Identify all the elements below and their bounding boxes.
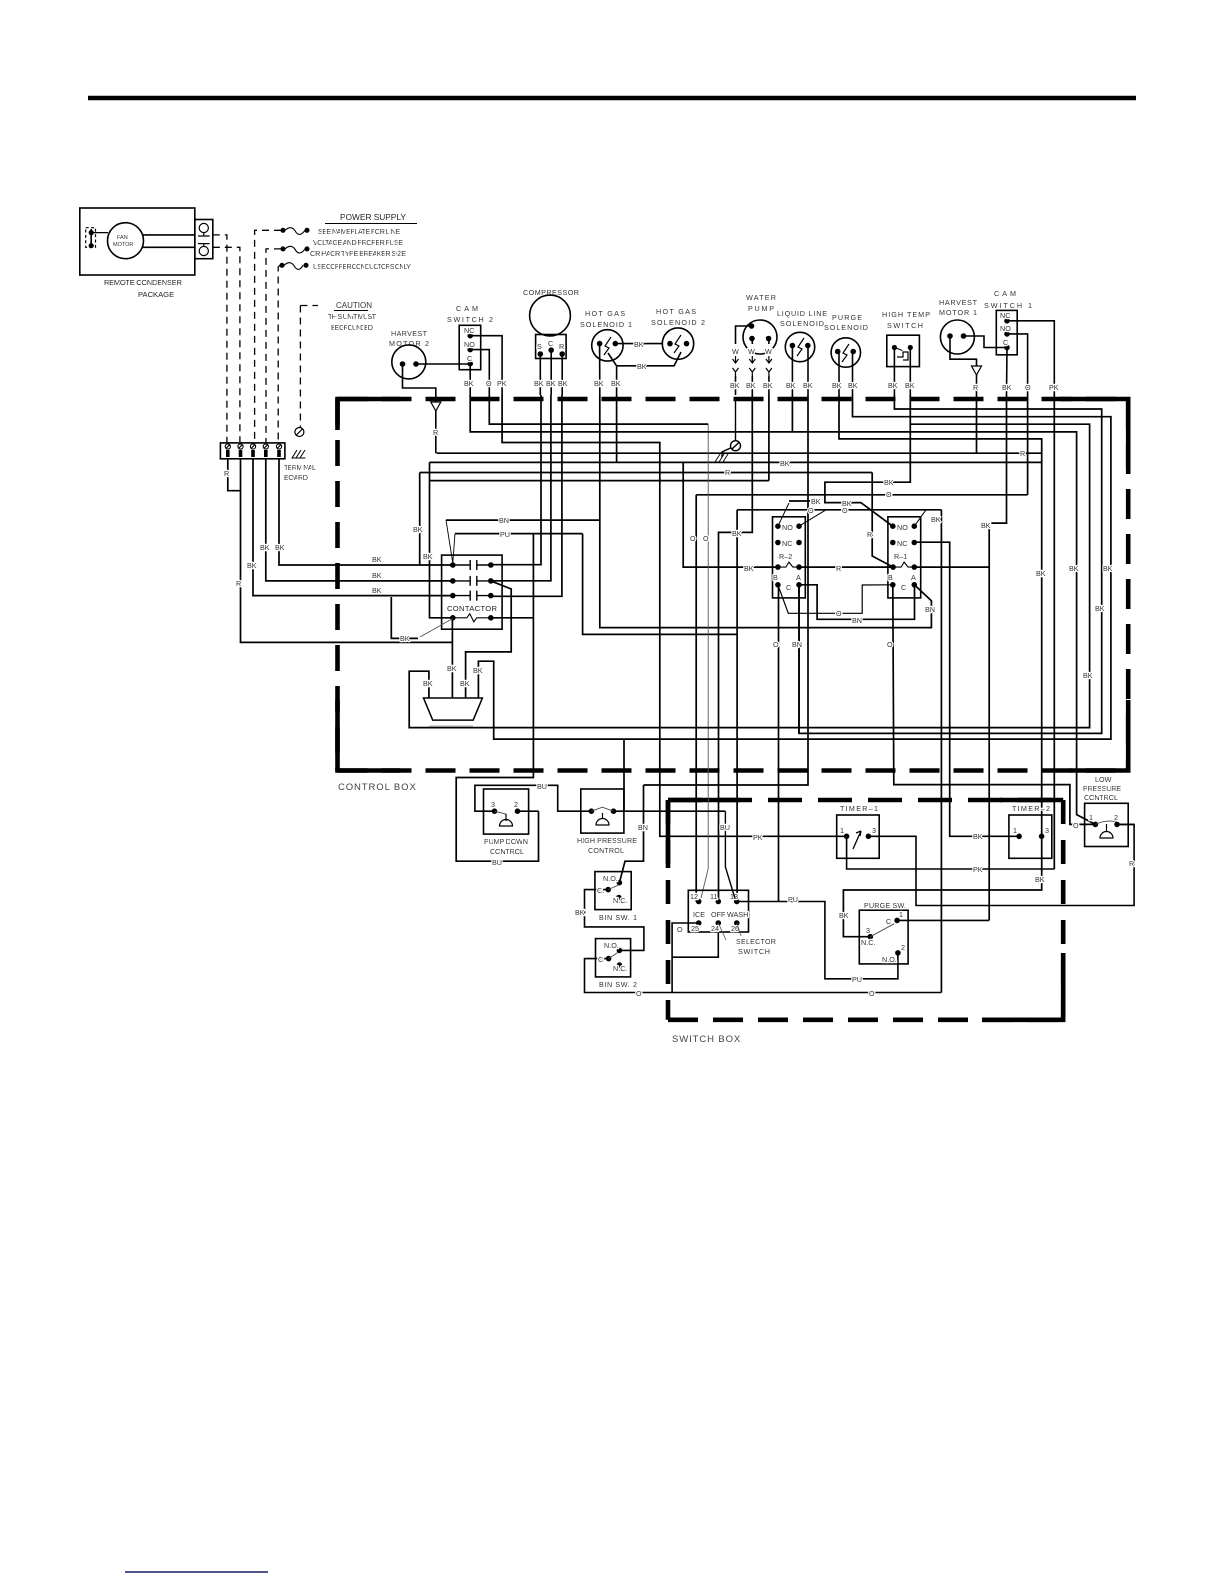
junction dot bbox=[685, 342, 689, 346]
svg-text:LOW: LOW bbox=[1095, 775, 1112, 784]
svg-text:BN: BN bbox=[852, 616, 862, 625]
wire BK terminal 5 to contactor L1 bbox=[279, 459, 453, 565]
svg-text:BK: BK bbox=[884, 478, 894, 487]
junction dot bbox=[735, 900, 739, 904]
dashed caution pointer bbox=[300, 305, 318, 307]
wire fan motor to overload block (top) bbox=[143, 234, 195, 236]
svg-text:N.O.: N.O. bbox=[604, 941, 619, 950]
group bbox=[392, 345, 470, 453]
svg-text:OFF: OFF bbox=[711, 910, 726, 919]
terminal 4 bbox=[263, 444, 268, 449]
transformer T1 bbox=[424, 698, 483, 720]
wire bbox=[733, 368, 739, 376]
wire R coil link bbox=[799, 566, 893, 568]
svg-text:BK: BK bbox=[1036, 569, 1046, 578]
switch box border corner top-right bbox=[1000, 798, 1063, 803]
chevron connector R bbox=[431, 402, 441, 411]
wire BN drop to bin switch 1 bbox=[619, 785, 643, 883]
svg-text:BK: BK bbox=[372, 586, 382, 595]
svg-text:BK: BK bbox=[413, 525, 423, 534]
W arrows then chevrons bbox=[733, 356, 772, 376]
svg-text:BK: BK bbox=[460, 679, 470, 688]
wire R harvest motor 2 down bbox=[403, 364, 436, 402]
wire bbox=[292, 457, 306, 459]
junction dot bbox=[560, 352, 564, 356]
svg-text:CAM: CAM bbox=[994, 289, 1016, 298]
wire BK high temp switch right bbox=[909, 349, 911, 395]
svg-text:NO: NO bbox=[1000, 324, 1011, 333]
junction dot bbox=[776, 541, 780, 545]
svg-text:BK: BK bbox=[1035, 875, 1045, 884]
harvest motor 1 bbox=[940, 320, 974, 354]
pointer to R2 NO left bbox=[778, 503, 789, 526]
high pressure dome bbox=[596, 813, 609, 825]
svg-text:BK: BK bbox=[546, 379, 556, 388]
junction dot bbox=[613, 342, 617, 346]
wire bbox=[778, 562, 799, 567]
junction dot bbox=[909, 346, 913, 350]
wire O horizontal run 510 bbox=[737, 509, 941, 511]
svg-text:R: R bbox=[559, 342, 564, 351]
junction dot bbox=[1005, 346, 1009, 350]
wire bbox=[264, 450, 268, 457]
svg-text:PURGE SW.: PURGE SW. bbox=[864, 901, 906, 910]
junction dot bbox=[790, 344, 794, 348]
wire BK terminal 4 to contactor L2 bbox=[266, 459, 453, 581]
junction dot bbox=[750, 337, 754, 341]
junction dot bbox=[516, 809, 520, 813]
junction dot bbox=[617, 881, 621, 885]
wire BU drop to selector 13 bbox=[725, 811, 735, 898]
control box border bottom bbox=[338, 768, 1129, 773]
contactor coil bbox=[453, 614, 491, 622]
purge solenoid bbox=[831, 338, 860, 367]
wire BK contactor jog bbox=[391, 597, 418, 638]
wire PU selector 13 to purge switch NO bbox=[737, 902, 898, 979]
group bbox=[459, 325, 502, 395]
pump down pressure dome bbox=[500, 814, 513, 826]
svg-text:MOTOR 2: MOTOR 2 bbox=[389, 339, 429, 348]
junction dot bbox=[948, 334, 952, 338]
wire bbox=[198, 244, 210, 247]
junction dot bbox=[451, 594, 455, 598]
svg-text:TIMER–1: TIMER–1 bbox=[840, 804, 878, 813]
wire O bin switch 2 C run bbox=[585, 959, 942, 993]
dashed feeders from condenser to terminal board bbox=[213, 230, 318, 442]
dashed supply wire 4 bbox=[266, 249, 281, 442]
wire BK cam switch 2 C bbox=[469, 364, 471, 395]
pointer PU to contactor bbox=[453, 534, 455, 563]
svg-text:BK: BK bbox=[981, 521, 991, 530]
junction dot bbox=[549, 348, 553, 352]
svg-text:N.C.: N.C. bbox=[613, 964, 627, 973]
wire BK horizontal run 481 bbox=[430, 480, 769, 482]
wire BK to relay R2 coil bbox=[683, 462, 778, 567]
svg-text:MOTOR: MOTOR bbox=[113, 242, 133, 248]
svg-text:BK: BK bbox=[558, 379, 568, 388]
remote condenser package box bbox=[80, 208, 195, 275]
wire PU horizontal run 534 bbox=[455, 533, 583, 535]
svg-text:O: O bbox=[703, 534, 709, 543]
junction dot bbox=[891, 541, 895, 545]
wire BN hot gas 1 to relay R1 A bbox=[600, 395, 932, 628]
wire BK liquid line right to BN drop bbox=[644, 395, 809, 785]
svg-text:LIQUID LINE: LIQUID LINE bbox=[777, 309, 827, 318]
svg-text:PU: PU bbox=[788, 895, 798, 904]
junction dot bbox=[89, 244, 93, 248]
overload symbol bottom bbox=[199, 246, 208, 255]
svg-text:ICE: ICE bbox=[693, 910, 705, 919]
svg-text:WATER: WATER bbox=[746, 293, 776, 302]
svg-text:NO: NO bbox=[897, 523, 908, 532]
svg-text:PU: PU bbox=[852, 975, 862, 984]
svg-text:BK: BK bbox=[832, 381, 842, 390]
wire relay R1 coil right bbox=[914, 566, 989, 568]
svg-text:BK: BK bbox=[423, 679, 433, 688]
svg-text:BK: BK bbox=[1069, 564, 1079, 573]
junction dot bbox=[697, 900, 701, 904]
svg-text:BOARD: BOARD bbox=[284, 473, 308, 482]
compressor bbox=[530, 295, 571, 336]
svg-text:BK: BK bbox=[400, 634, 410, 643]
wire PU drop to selector 13 feeder bbox=[583, 534, 738, 635]
svg-text:SEE NAMEPLATE FOR LINE: SEE NAMEPLATE FOR LINE bbox=[318, 227, 400, 236]
control box bbox=[338, 399, 1129, 771]
low pressure switch blade bbox=[1095, 821, 1117, 824]
wire BK cam switch 1 C to purge switch C bbox=[989, 395, 1006, 920]
svg-text:PK: PK bbox=[497, 379, 507, 388]
wire R main horizontal run bbox=[437, 452, 1042, 454]
junction dot bbox=[735, 921, 739, 925]
junction dot bbox=[1115, 822, 1119, 826]
svg-text:N.C.: N.C. bbox=[861, 938, 875, 947]
svg-text:R: R bbox=[1129, 859, 1134, 868]
svg-text:CONTROL: CONTROL bbox=[1084, 793, 1118, 802]
wire O cam switch 2 NO run bbox=[489, 395, 708, 424]
switch box border bottom bbox=[668, 1017, 1063, 1022]
terminal 3 bbox=[250, 444, 255, 449]
svg-text:BK: BK bbox=[275, 543, 285, 552]
junction dot bbox=[896, 951, 900, 955]
svg-text:HIGH PRESSURE: HIGH PRESSURE bbox=[577, 836, 637, 845]
svg-text:O: O bbox=[690, 534, 696, 543]
svg-text:1: 1 bbox=[1013, 826, 1017, 835]
terminal board bbox=[220, 428, 305, 459]
svg-text:BE GROUNDED: BE GROUNDED bbox=[331, 323, 373, 332]
svg-text:PURGE: PURGE bbox=[832, 313, 862, 322]
svg-text:W: W bbox=[732, 347, 739, 356]
wire PK cam switch 1 NC bbox=[1007, 321, 1054, 395]
svg-text:FAN: FAN bbox=[117, 235, 128, 241]
pump down control bbox=[484, 789, 529, 834]
svg-text:SWITCH: SWITCH bbox=[887, 321, 923, 330]
wire R terminal 2 to contactor coil lead bbox=[241, 459, 453, 642]
contactor contact 3 bbox=[453, 591, 491, 601]
wire BK compressor R bbox=[561, 354, 563, 395]
control box border top bbox=[338, 397, 1129, 402]
svg-text:BK: BK bbox=[637, 362, 647, 371]
wire bbox=[429, 725, 473, 727]
wire BK coil to transformer bbox=[451, 620, 453, 698]
wire BN relay R2 A drop bbox=[798, 585, 800, 734]
svg-text:O: O bbox=[887, 640, 893, 649]
wire BK compressor C bbox=[550, 350, 552, 395]
wire R harvest motor 1 down bbox=[950, 336, 977, 366]
wire BN horizontal run 520 bbox=[446, 519, 600, 521]
svg-text:C: C bbox=[467, 354, 472, 363]
wire bbox=[768, 376, 770, 395]
wire BK high temp switch left bbox=[893, 349, 895, 395]
svg-text:POWER SUPPLY: POWER SUPPLY bbox=[340, 212, 406, 222]
svg-text:NC: NC bbox=[1000, 311, 1010, 320]
svg-text:BK: BK bbox=[744, 564, 754, 573]
wire bbox=[735, 398, 737, 441]
hot gas solenoid 2 bbox=[662, 328, 693, 359]
svg-text:1: 1 bbox=[899, 910, 903, 919]
svg-text:BK: BK bbox=[1103, 564, 1113, 573]
svg-text:B: B bbox=[888, 573, 893, 582]
wire O relay R2 B to relay R1 B bbox=[778, 585, 893, 614]
svg-text:BK: BK bbox=[247, 561, 257, 570]
wire BK hot gas solenoid 1 left bbox=[599, 344, 601, 395]
svg-text:CONTROL: CONTROL bbox=[490, 847, 524, 856]
junction dot bbox=[606, 888, 610, 892]
junction dot bbox=[612, 809, 616, 813]
power supply switch L2 bbox=[281, 247, 285, 251]
switch box border top bbox=[668, 798, 1063, 803]
fan motor bbox=[108, 223, 144, 259]
junction dot bbox=[750, 324, 754, 328]
wire high pressure control to BU drop bbox=[614, 810, 726, 812]
wire BK purge solenoid right bbox=[852, 353, 854, 395]
top rule bbox=[88, 96, 1136, 101]
group bbox=[733, 320, 778, 395]
ground symbol in control box bbox=[715, 398, 741, 462]
svg-text:HARVEST: HARVEST bbox=[939, 298, 978, 307]
svg-text:USE COPPER CONDUCTORS ONLY: USE COPPER CONDUCTORS ONLY bbox=[313, 262, 411, 271]
wire bbox=[749, 368, 755, 376]
svg-text:R: R bbox=[867, 530, 872, 539]
junction dot bbox=[716, 921, 720, 925]
svg-text:SOLENOID 2: SOLENOID 2 bbox=[651, 318, 705, 327]
svg-text:BN: BN bbox=[499, 516, 509, 525]
wire BK purge solenoid right to transformer bbox=[478, 395, 1111, 739]
svg-text:BK: BK bbox=[447, 664, 457, 673]
svg-text:PRESSURE: PRESSURE bbox=[1083, 784, 1121, 793]
svg-text:C: C bbox=[598, 955, 603, 964]
junction dot bbox=[776, 524, 780, 528]
junction dot bbox=[891, 524, 895, 528]
purge switch blade bbox=[870, 924, 894, 937]
timer 1 bbox=[837, 815, 880, 858]
junction dot bbox=[697, 921, 701, 925]
junction dot bbox=[895, 918, 899, 922]
svg-text:NC: NC bbox=[782, 539, 792, 548]
junction dot bbox=[617, 948, 621, 952]
wire terminal 1 jog bbox=[228, 459, 241, 491]
svg-text:O: O bbox=[886, 490, 892, 499]
svg-text:BK: BK bbox=[594, 379, 604, 388]
svg-text:N.O.: N.O. bbox=[882, 955, 897, 964]
wire BK run to transformer left bbox=[409, 424, 1089, 727]
svg-text:TERMINAL: TERMINAL bbox=[284, 463, 316, 472]
pointer to R2 NO right bbox=[799, 510, 826, 526]
svg-text:BK: BK bbox=[372, 571, 382, 580]
terminal board bbox=[220, 443, 285, 459]
svg-text:BIN SW. 1: BIN SW. 1 bbox=[599, 913, 637, 922]
svg-text:3: 3 bbox=[1045, 826, 1049, 835]
pointer selector 26 bbox=[737, 923, 741, 936]
svg-text:O: O bbox=[836, 609, 842, 618]
bin switch 1 bbox=[595, 872, 631, 910]
svg-text:R: R bbox=[1020, 449, 1025, 458]
wire bbox=[674, 335, 681, 353]
wire BK to contactor coil bbox=[430, 462, 453, 617]
svg-text:BK: BK bbox=[1095, 604, 1105, 613]
junction dot bbox=[598, 342, 602, 346]
wire O cam switch 2 NO bbox=[470, 350, 489, 395]
svg-text:BU: BU bbox=[492, 858, 502, 867]
ground terminal symbol bbox=[295, 428, 304, 437]
svg-text:PU: PU bbox=[500, 530, 510, 539]
svg-text:BK: BK bbox=[786, 381, 796, 390]
wire bbox=[733, 356, 739, 363]
svg-text:VOLTAGE AND PROPER FUSE: VOLTAGE AND PROPER FUSE bbox=[313, 238, 403, 247]
wire O drop to selector 12 bbox=[695, 495, 697, 902]
svg-text:BU: BU bbox=[720, 823, 730, 832]
contactor contact 1 bbox=[453, 560, 491, 570]
group bbox=[225, 444, 281, 449]
junction dot bbox=[836, 350, 840, 354]
wire bbox=[749, 356, 755, 363]
switch box bbox=[668, 800, 1063, 1020]
svg-text:PUMP: PUMP bbox=[748, 304, 774, 313]
junction dot bbox=[468, 348, 472, 352]
svg-text:BN: BN bbox=[792, 640, 802, 649]
svg-text:BK: BK bbox=[973, 832, 983, 841]
wire BK bin switch 1 C to bin switch 2 NO bbox=[585, 890, 644, 951]
footer link rule bbox=[125, 1571, 268, 1573]
power supply switch L1 bbox=[281, 228, 285, 232]
svg-text:SWITCH 2: SWITCH 2 bbox=[447, 315, 493, 324]
wire R harvest motor 1 into control box bbox=[976, 375, 978, 395]
svg-text:W: W bbox=[765, 347, 772, 356]
svg-text:BN: BN bbox=[925, 605, 935, 614]
wire R drop to contactor L1 bbox=[419, 473, 421, 566]
svg-text:BU: BU bbox=[537, 782, 547, 791]
pump down switch blade bbox=[495, 811, 507, 814]
pointer selector 24 bbox=[718, 923, 726, 940]
svg-text:12: 12 bbox=[690, 892, 698, 901]
junction dot bbox=[493, 809, 497, 813]
svg-text:BIN SW. 2: BIN SW. 2 bbox=[599, 980, 637, 989]
wire BK high temp left loop to relay R2 A bbox=[799, 395, 1102, 733]
contactor bbox=[442, 555, 503, 629]
wire low pressure control 2 stub bbox=[1117, 823, 1134, 825]
wire BK compressor S to contactor T1 bbox=[491, 395, 541, 565]
junction dot bbox=[1017, 834, 1021, 838]
purge switch bbox=[859, 910, 908, 964]
switch box border corner bottom-right bbox=[982, 953, 1063, 1020]
group bbox=[88, 98, 1136, 1572]
low pressure control bbox=[1085, 803, 1135, 846]
svg-text:25: 25 bbox=[691, 924, 699, 933]
wire PK cam switch 1 NC drop bbox=[1053, 395, 1055, 869]
contactor contact 2 bbox=[453, 576, 491, 586]
svg-text:3: 3 bbox=[491, 800, 495, 809]
terminal 2 bbox=[238, 444, 243, 449]
wire bbox=[90, 229, 92, 246]
junction dot bbox=[589, 809, 593, 813]
svg-text:PK: PK bbox=[753, 833, 763, 842]
svg-text:NC: NC bbox=[897, 539, 907, 548]
junction dot bbox=[468, 362, 472, 366]
svg-text:R: R bbox=[433, 428, 438, 437]
power supply switch L3 bbox=[280, 263, 284, 267]
junction dot bbox=[607, 957, 611, 961]
svg-text:SWITCH 1: SWITCH 1 bbox=[984, 301, 1032, 310]
pump down control bbox=[475, 785, 592, 834]
svg-text:N.C.: N.C. bbox=[613, 896, 627, 905]
wire BK liquid line solenoid right bbox=[807, 347, 809, 395]
dashed ground wire bbox=[299, 306, 301, 429]
bin switch 2 bbox=[596, 939, 631, 977]
svg-text:1: 1 bbox=[840, 826, 844, 835]
svg-text:SWITCH: SWITCH bbox=[738, 947, 770, 956]
svg-text:C: C bbox=[786, 583, 791, 592]
wire R to relay R1 coil bbox=[872, 473, 893, 568]
wire O cam switch 1 NO drop bbox=[1027, 395, 1029, 495]
bin sw 2 bbox=[585, 939, 942, 993]
svg-text:O: O bbox=[677, 925, 683, 934]
svg-text:2: 2 bbox=[1114, 813, 1118, 822]
junction dot bbox=[868, 935, 872, 939]
wire R horizontal run 472 bbox=[420, 472, 873, 474]
wire BK compressor S bbox=[539, 354, 541, 395]
wire water pump ground lead bbox=[736, 326, 752, 344]
junction dot bbox=[776, 565, 780, 569]
wire BK cam switch 1 C bbox=[1006, 348, 1009, 396]
wire BK hot gas solenoid 1 junction bbox=[616, 366, 618, 395]
svg-text:R–1: R–1 bbox=[894, 552, 907, 561]
wire BK relay R1 NC to timer 2 bbox=[914, 542, 1019, 836]
fan capacitor bbox=[86, 228, 96, 248]
svg-text:SOLENOID 1: SOLENOID 1 bbox=[580, 320, 632, 329]
svg-text:2: 2 bbox=[514, 800, 518, 809]
wire bbox=[751, 376, 753, 395]
group bbox=[831, 338, 860, 395]
bin switch 2 blade bbox=[609, 953, 618, 959]
wire O thin drop to selector 12 bbox=[701, 424, 708, 898]
wire BK horizontal run 462 bbox=[430, 461, 1042, 463]
overload symbol top bbox=[199, 223, 208, 232]
svg-text:SELECTOR: SELECTOR bbox=[736, 937, 776, 946]
timer 1 arrow bbox=[853, 831, 861, 849]
wire bbox=[198, 233, 210, 236]
svg-text:PK: PK bbox=[1049, 383, 1059, 392]
wire PK cam switch 2 to timer 1 bbox=[502, 395, 846, 836]
svg-text:BK: BK bbox=[473, 666, 483, 675]
svg-text:THIS UNIT MUST: THIS UNIT MUST bbox=[328, 312, 377, 321]
wire BU pump down 3 to high pressure control bbox=[475, 785, 592, 811]
junction dot bbox=[414, 362, 418, 366]
svg-text:CONTROL: CONTROL bbox=[588, 846, 624, 855]
control box border corner top-left bbox=[338, 399, 401, 430]
junction dot bbox=[1093, 822, 1097, 826]
svg-text:O: O bbox=[1025, 383, 1031, 392]
group bbox=[530, 295, 571, 395]
wire bbox=[285, 228, 305, 235]
